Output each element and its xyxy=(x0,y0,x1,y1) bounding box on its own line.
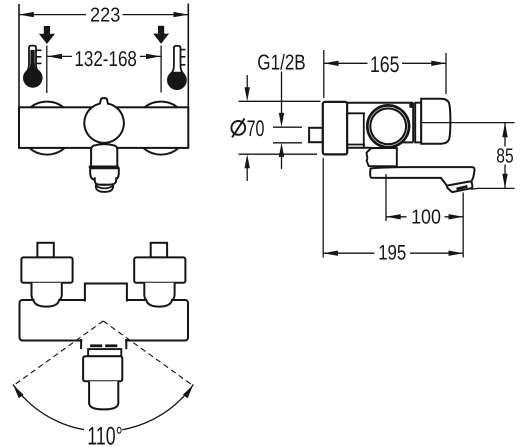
thermometer cold ticks xyxy=(181,50,186,65)
dim 100 extension line left xyxy=(385,174,387,221)
dim 165 line right segment xyxy=(402,62,446,64)
index tick on body xyxy=(409,103,412,108)
thermometer cold (right) bulb xyxy=(167,70,187,90)
swivel dashed line right xyxy=(103,321,193,386)
dim 85 arrow up xyxy=(502,123,507,138)
dim 165 extension line right xyxy=(445,53,447,94)
dim 165 arrow left xyxy=(324,61,339,66)
G1/2B leader line xyxy=(281,72,283,115)
thermometer hot (left) bulb xyxy=(23,68,43,88)
hidden joint dash left xyxy=(90,344,102,347)
aerator rim arc front xyxy=(97,186,113,188)
body inner step top xyxy=(347,112,365,114)
dim 165 arrow right xyxy=(431,61,446,66)
svg-text:100: 100 xyxy=(411,207,441,229)
body inner step bottom xyxy=(347,144,365,146)
dim 100 line left segment xyxy=(386,216,407,218)
swivel arc right segment xyxy=(122,384,193,429)
dim 85 line lower segment xyxy=(504,165,506,189)
dim 132-168 arrow right xyxy=(146,54,161,59)
flange circle left xyxy=(21,102,74,155)
svg-text:132-168: 132-168 xyxy=(74,47,137,71)
dim 223 line right segment xyxy=(123,14,189,16)
dim 223 line left segment xyxy=(19,14,86,16)
mounting mark arrow right (fat) xyxy=(153,26,169,44)
dim 85 arrow down xyxy=(502,174,507,189)
G1/2B lower arrow up xyxy=(279,143,284,157)
dim 132-168 extension line right xyxy=(160,46,162,93)
spout joint bar front xyxy=(89,165,119,168)
flange circle right xyxy=(135,102,188,155)
aerator cup front xyxy=(96,184,113,192)
dim 195 arrow right xyxy=(449,251,464,256)
dim 223 extension line right xyxy=(187,4,189,108)
dim 132-168 extension line left xyxy=(46,46,48,94)
mounting mark arrow left (fat) xyxy=(39,26,55,44)
dim 165 extension line left xyxy=(323,50,325,98)
dim 100 line right segment xyxy=(445,216,464,218)
dim 195 line right segment xyxy=(410,252,463,254)
left inlet cap xyxy=(37,243,53,258)
knob inner circle side view xyxy=(370,108,406,144)
spout support side view xyxy=(367,148,397,166)
spout body top view xyxy=(83,356,122,381)
body inner vertical xyxy=(363,113,365,148)
body side view xyxy=(347,103,413,148)
dim 223 extension line left xyxy=(18,4,20,107)
thermometer hot mercury fill xyxy=(28,50,37,71)
dim 132-168 arrow left xyxy=(47,54,62,59)
spout neck front xyxy=(91,144,117,166)
faucet body front xyxy=(19,107,188,148)
dim 85 bottom extension line xyxy=(471,187,515,190)
svg-text:G1/2B: G1/2B xyxy=(257,50,305,74)
swivel arc left segment xyxy=(13,384,84,429)
svg-text:223: 223 xyxy=(90,5,120,27)
thermometer cold stem outline xyxy=(172,46,183,73)
body top view xyxy=(20,300,189,341)
swivel arc arrow left xyxy=(13,385,23,398)
left inlet flange xyxy=(21,257,72,282)
dim 100 arrow right xyxy=(449,214,464,219)
stub top reference line xyxy=(273,126,302,128)
handle side view xyxy=(421,99,450,144)
svg-text:110°: 110° xyxy=(87,423,122,447)
G1/2B leader arrow down xyxy=(279,113,284,127)
collar side view xyxy=(415,103,421,143)
dim 165 line left segment xyxy=(324,62,368,64)
spout collar top view xyxy=(88,349,121,356)
dim Ø70 upper arrow xyxy=(246,75,248,88)
aerator side view xyxy=(447,181,473,191)
thermometer hot ticks xyxy=(36,50,41,63)
right inlet flange xyxy=(134,257,185,282)
dim 85 top extension line xyxy=(421,122,515,124)
wall stub side view xyxy=(309,128,323,142)
svg-text:165: 165 xyxy=(370,52,400,77)
right inlet cap xyxy=(151,243,167,258)
spout neck gap erase xyxy=(82,338,125,342)
spout tip top view xyxy=(89,381,118,409)
dim 195 extension line left xyxy=(322,158,324,258)
dim 223 arrow right xyxy=(174,12,189,17)
dim 100 arrow left xyxy=(386,214,401,219)
escutcheon side view xyxy=(323,102,347,154)
dim Ø70 label diameter symbol xyxy=(231,121,245,135)
aerator ring front xyxy=(95,177,116,184)
svg-text:70: 70 xyxy=(247,116,265,141)
svg-text:195: 195 xyxy=(378,242,406,265)
G1/2B lower leader line xyxy=(281,156,283,169)
dim 85 line upper segment xyxy=(504,123,506,147)
spout neck side right xyxy=(125,339,127,349)
hidden joint dash right xyxy=(105,344,117,347)
thermometer hot stem outline xyxy=(28,46,38,71)
aerator housing front xyxy=(90,168,119,180)
dim 132-168 line right segment xyxy=(140,55,161,57)
aerator slot side view xyxy=(457,186,468,189)
spout side view xyxy=(370,167,474,186)
right inlet nut with arc xyxy=(144,283,174,307)
svg-text:85: 85 xyxy=(496,146,513,168)
dim 195 line left segment xyxy=(323,252,374,254)
dim 100/195 extension line right xyxy=(462,193,464,258)
dim 132-168 line left segment xyxy=(47,55,72,57)
swivel dashed line left xyxy=(14,321,104,386)
dim 223 arrow left xyxy=(19,12,34,17)
swivel arc arrow right xyxy=(183,385,193,398)
dim Ø70 bottom extension line xyxy=(239,153,318,155)
left inlet nut with arc xyxy=(32,283,62,307)
stub bottom reference line xyxy=(273,142,302,144)
dim Ø70 lower arrow xyxy=(245,154,250,168)
spout neck side left xyxy=(80,339,82,349)
centre plateau top view xyxy=(85,284,127,302)
dim Ø70 top extension line xyxy=(239,100,321,102)
knob with tab front xyxy=(84,98,124,143)
knob outer circle side view xyxy=(367,105,409,147)
dim 195 arrow left xyxy=(323,251,338,256)
